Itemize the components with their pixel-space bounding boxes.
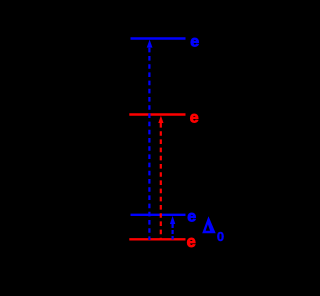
svg-text:0: 0 [217, 229, 224, 244]
svg-text:e: e [190, 34, 199, 51]
svg-text:e: e [190, 110, 199, 127]
svg-text:e: e [187, 233, 196, 251]
svg-text:e: e [187, 208, 196, 225]
